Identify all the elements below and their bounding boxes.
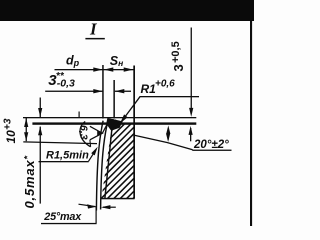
arrowhead S left — [104, 67, 114, 71]
dimension line d_p — [55, 69, 103, 70]
tooth bottom edge — [101, 198, 134, 200]
roughness lower leg — [89, 140, 92, 147]
dimension line 3-0,3 left part — [45, 91, 103, 92]
20 degree inclined line — [134, 135, 192, 150]
svg-text:10: 10 — [4, 130, 18, 144]
roughness mark 6,3 text — [78, 125, 90, 140]
svg-text:0,5max*: 0,5max* — [22, 155, 37, 209]
blackened corner fill — [106, 118, 123, 131]
svg-text:+0,6: +0,6 — [155, 79, 175, 90]
20 label underline — [192, 150, 231, 151]
svg-text:-0,3: -0,3 — [57, 77, 75, 89]
arrowhead d_p right — [93, 67, 103, 71]
R1 label underline — [140, 96, 200, 97]
dimension 0,5max vertical upper — [40, 98, 41, 118]
vertical lower with up arrowhead — [40, 127, 41, 204]
groove flank A — [96, 121, 103, 211]
right border line — [250, 21, 252, 226]
groove flank B — [101, 121, 108, 210]
arrowhead down at thin line — [189, 108, 193, 117]
svg-text:+3: +3 — [3, 118, 14, 130]
arrowhead 3-0,3 at V1 — [93, 89, 103, 93]
arrowhead down at lower ext — [24, 132, 28, 141]
thin top surface line — [23, 117, 196, 118]
label 10 +3 (rotated) — [3, 118, 19, 143]
svg-text:25°max: 25°max — [43, 211, 82, 223]
roughness check leg — [102, 121, 108, 133]
label 0,5max* (rotated) — [22, 155, 37, 209]
R1,5min leader arrowhead — [91, 147, 98, 156]
R1 leader arrowhead — [120, 114, 128, 123]
R1,5min underline — [39, 161, 89, 162]
view label underline — [85, 38, 104, 40]
extension line V1 — [102, 65, 104, 119]
top black band — [0, 0, 254, 21]
dimension line 10+3 vertical — [26, 118, 27, 141]
arrowhead down at thin line — [38, 108, 42, 117]
dimension tail right of V2 — [115, 91, 131, 92]
R1,5min leader — [89, 149, 97, 161]
label 3 +0,5 (rotated) — [170, 41, 186, 71]
lower arrow up at thick line — [190, 128, 191, 141]
dimension line 3+0,5 vertical — [191, 28, 192, 111]
extension line V3 / tooth right edge — [133, 66, 135, 199]
svg-text:+0,5: +0,5 — [170, 41, 182, 63]
svg-text:R1,5min: R1,5min — [46, 150, 89, 162]
25max leader riser — [96, 207, 97, 224]
25max underline — [41, 223, 97, 224]
roughness vertex arrowhead — [97, 131, 103, 137]
svg-text:R1: R1 — [141, 82, 157, 96]
hatch left boundary — [105, 119, 113, 198]
extension line V2 — [113, 80, 115, 119]
25 degree arrows at groove bottom — [79, 204, 96, 206]
svg-text:20°±2°: 20°±2° — [193, 139, 229, 151]
arrowhead S right — [124, 67, 134, 71]
double arrow between surface and incline — [168, 128, 169, 140]
svg-text:3: 3 — [171, 64, 186, 71]
roughness mark arc — [80, 122, 91, 147]
dimension line S_n — [103, 69, 134, 70]
arrowhead at V2 — [115, 89, 125, 93]
lower extension line — [23, 142, 97, 144]
small tick above surface — [79, 112, 80, 118]
roughness check triangle — [90, 126, 103, 140]
arrowhead up at thin line — [24, 118, 28, 127]
thick surface line — [32, 122, 196, 124]
R1 leader line — [122, 97, 140, 122]
